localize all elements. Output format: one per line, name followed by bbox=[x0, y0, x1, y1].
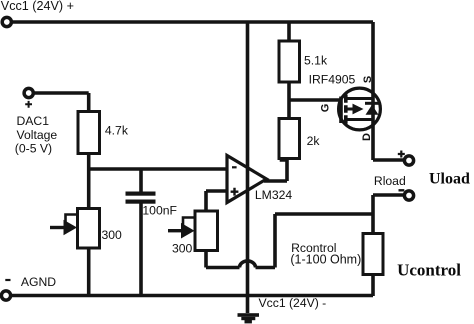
MOSFET channel bar bbox=[344, 95, 348, 124]
capacitor C1 100nF plates bbox=[126, 192, 156, 196]
svg-text:(0-5 V): (0-5 V) bbox=[15, 141, 52, 155]
label Rload polarity - bbox=[399, 189, 405, 191]
wire 5.1k to 2k series link bbox=[287, 81, 291, 119]
potentiometer P2 300 body bbox=[195, 211, 218, 251]
MOSFET bottom (drain) stub bbox=[347, 118, 373, 121]
svg-text:D: D bbox=[361, 133, 373, 141]
svg-text:LM324: LM324 bbox=[255, 188, 292, 202]
MOSFET body stub with arrow bbox=[347, 108, 354, 111]
wire hop over ground line bbox=[240, 261, 256, 268]
resistor R3 4.7k bbox=[78, 112, 100, 154]
svg-text:2k: 2k bbox=[307, 134, 321, 148]
wire Rcontrol bottom lead bbox=[371, 274, 375, 296]
op-amp inverting input minus mark bbox=[232, 166, 237, 168]
svg-text:G: G bbox=[319, 104, 331, 113]
label DAC1 polarity + bbox=[25, 101, 32, 108]
svg-text:Voltage: Voltage bbox=[17, 128, 58, 142]
wire op-amp supply vertical to ground bbox=[246, 22, 250, 313]
MOSFET body diode triangle bbox=[366, 105, 379, 115]
wire capacitor top lead bbox=[139, 169, 143, 192]
terminal DAC1 bbox=[24, 88, 33, 97]
wire feedback lower run with hop bbox=[206, 266, 240, 270]
svg-text:300: 300 bbox=[102, 228, 123, 242]
terminal AGND bbox=[1, 291, 10, 300]
wire top +24V rail bbox=[7, 20, 373, 24]
resistor Rcontrol body bbox=[363, 234, 383, 275]
MOSFET Q1 IRF4905 circle bbox=[339, 88, 381, 130]
op-amp U1 LM324 triangle bbox=[227, 156, 267, 203]
terminal Vcc1+ bbox=[2, 17, 11, 26]
MOSFET top (source) stub bbox=[347, 97, 373, 100]
wire DAC1 to 4.7k bbox=[34, 93, 89, 112]
svg-text:100nF: 100nF bbox=[142, 203, 177, 217]
wire pot1 bottom lead bbox=[87, 247, 91, 296]
wire pot2 bottom lead bbox=[204, 250, 208, 268]
svg-text:(1-100 Ohm): (1-100 Ohm) bbox=[290, 253, 361, 267]
wire source drop to MOSFET and through to drain corner bbox=[371, 22, 375, 160]
wire bottom 0V rail bbox=[7, 294, 373, 298]
resistor R1 5.1k bbox=[78, 41, 384, 275]
op-amp non-inverting input plus mark bbox=[231, 188, 239, 196]
wire Rcontrol top lead bbox=[371, 195, 375, 234]
wire non-inverting input bbox=[206, 191, 228, 212]
wire 4.7k bottom to pot1 top bbox=[87, 153, 91, 209]
resistor R2 2k bbox=[279, 119, 300, 159]
wire capacitor bottom lead bbox=[139, 203, 143, 296]
svg-text:Uload: Uload bbox=[429, 170, 470, 187]
wire inverting input from 4.7k node bbox=[89, 167, 228, 171]
svg-text:AGND: AGND bbox=[21, 275, 56, 289]
MOSFET gate bar bbox=[339, 97, 343, 124]
svg-text:DAC1: DAC1 bbox=[17, 114, 50, 128]
svg-text:Ucontrol: Ucontrol bbox=[397, 260, 461, 279]
wire op-amp output bbox=[264, 179, 287, 183]
svg-text:300: 300 bbox=[172, 241, 193, 255]
ground symbol bbox=[238, 313, 260, 317]
potentiometer P1 wiper arrow bbox=[50, 215, 77, 228]
svg-text:4.7k: 4.7k bbox=[105, 124, 129, 138]
svg-text:5.1k: 5.1k bbox=[304, 54, 328, 68]
potentiometer P2 wiper arrow bbox=[168, 218, 195, 231]
wire gate lead bbox=[289, 98, 340, 102]
svg-text:S: S bbox=[362, 76, 374, 83]
potentiometer P1 300 body bbox=[78, 209, 100, 249]
svg-text:IRF4905: IRF4905 bbox=[309, 73, 356, 87]
svg-text:Vcc1 (24V) +: Vcc1 (24V) + bbox=[1, 0, 74, 13]
wire 2k bottom lead bbox=[282, 157, 288, 181]
svg-text:Vcc1 (24V) -: Vcc1 (24V) - bbox=[259, 296, 327, 310]
label AGND polarity - bbox=[5, 279, 10, 281]
terminal Rload+ bbox=[404, 156, 413, 165]
terminal Rload- bbox=[404, 191, 413, 200]
wire 5.1k top lead bbox=[287, 22, 291, 42]
wire drain to Rload+ terminal bbox=[373, 158, 404, 162]
wire Rload- terminal run bbox=[373, 193, 404, 197]
MOSFET body diode cathode bar bbox=[365, 102, 379, 105]
svg-text:Rload: Rload bbox=[374, 174, 406, 188]
wire feedback riser bbox=[256, 214, 374, 268]
label Rload polarity + bbox=[398, 151, 405, 158]
